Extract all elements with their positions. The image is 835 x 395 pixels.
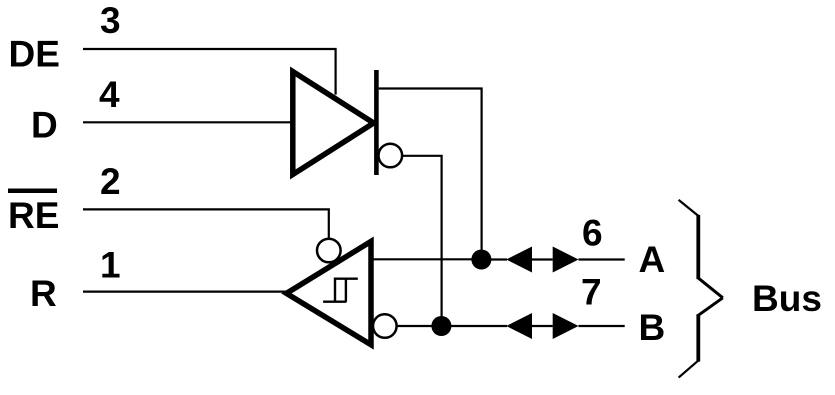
svg-text:6: 6 (582, 213, 603, 254)
svg-text:A: A (639, 239, 666, 280)
svg-text:R: R (30, 273, 57, 314)
receiver enable bubble (317, 239, 341, 263)
bus brace lower vertical (696, 314, 700, 361)
wire driver output to node A (379, 89, 482, 251)
svg-text:B: B (639, 307, 666, 348)
arrow B left (506, 313, 532, 339)
driver triangle U1 (293, 72, 374, 175)
wire RE (83, 209, 329, 239)
wire node B to arrows (441, 325, 507, 327)
driver output bar (374, 70, 379, 175)
wire arrow to pin B (579, 325, 625, 327)
svg-text:7: 7 (581, 271, 602, 312)
bus brace upper point diagonal (698, 278, 723, 298)
arrow A right (553, 247, 579, 273)
receiver hysteresis symbol (323, 279, 358, 302)
arrow B right (553, 313, 579, 339)
wire arrow to pin A (579, 258, 625, 260)
wire receiver bubble to node B (396, 325, 441, 327)
svg-text:D: D (31, 105, 58, 146)
wire receiver input A (371, 258, 482, 260)
bus brace bottom diagonal (679, 361, 699, 378)
junction node B (431, 316, 451, 336)
bus brace top diagonal (679, 200, 699, 216)
receiver inverting input bubble (373, 314, 397, 338)
driver inverting bubble (379, 144, 403, 168)
svg-text:1: 1 (100, 245, 121, 286)
svg-text:Bus: Bus (752, 278, 822, 319)
svg-text:4: 4 (99, 74, 120, 115)
svg-text:RE: RE (8, 195, 59, 236)
wire node A to arrows (481, 258, 507, 260)
svg-text:2: 2 (100, 161, 121, 202)
wire between A arrows (532, 258, 553, 260)
arrow A left (506, 247, 532, 273)
wire DE (83, 49, 336, 95)
RE overline (8, 189, 57, 194)
junction node A (471, 250, 491, 270)
bus brace upper vertical (696, 215, 700, 279)
wire D (83, 121, 292, 123)
svg-text:DE: DE (9, 33, 60, 74)
receiver triangle U2 (286, 241, 371, 344)
wire R (83, 291, 286, 293)
wire between B arrows (532, 325, 553, 327)
wire driver bubble to node B (403, 156, 442, 326)
svg-text:3: 3 (100, 0, 121, 41)
bus brace lower point diagonal (698, 298, 723, 316)
